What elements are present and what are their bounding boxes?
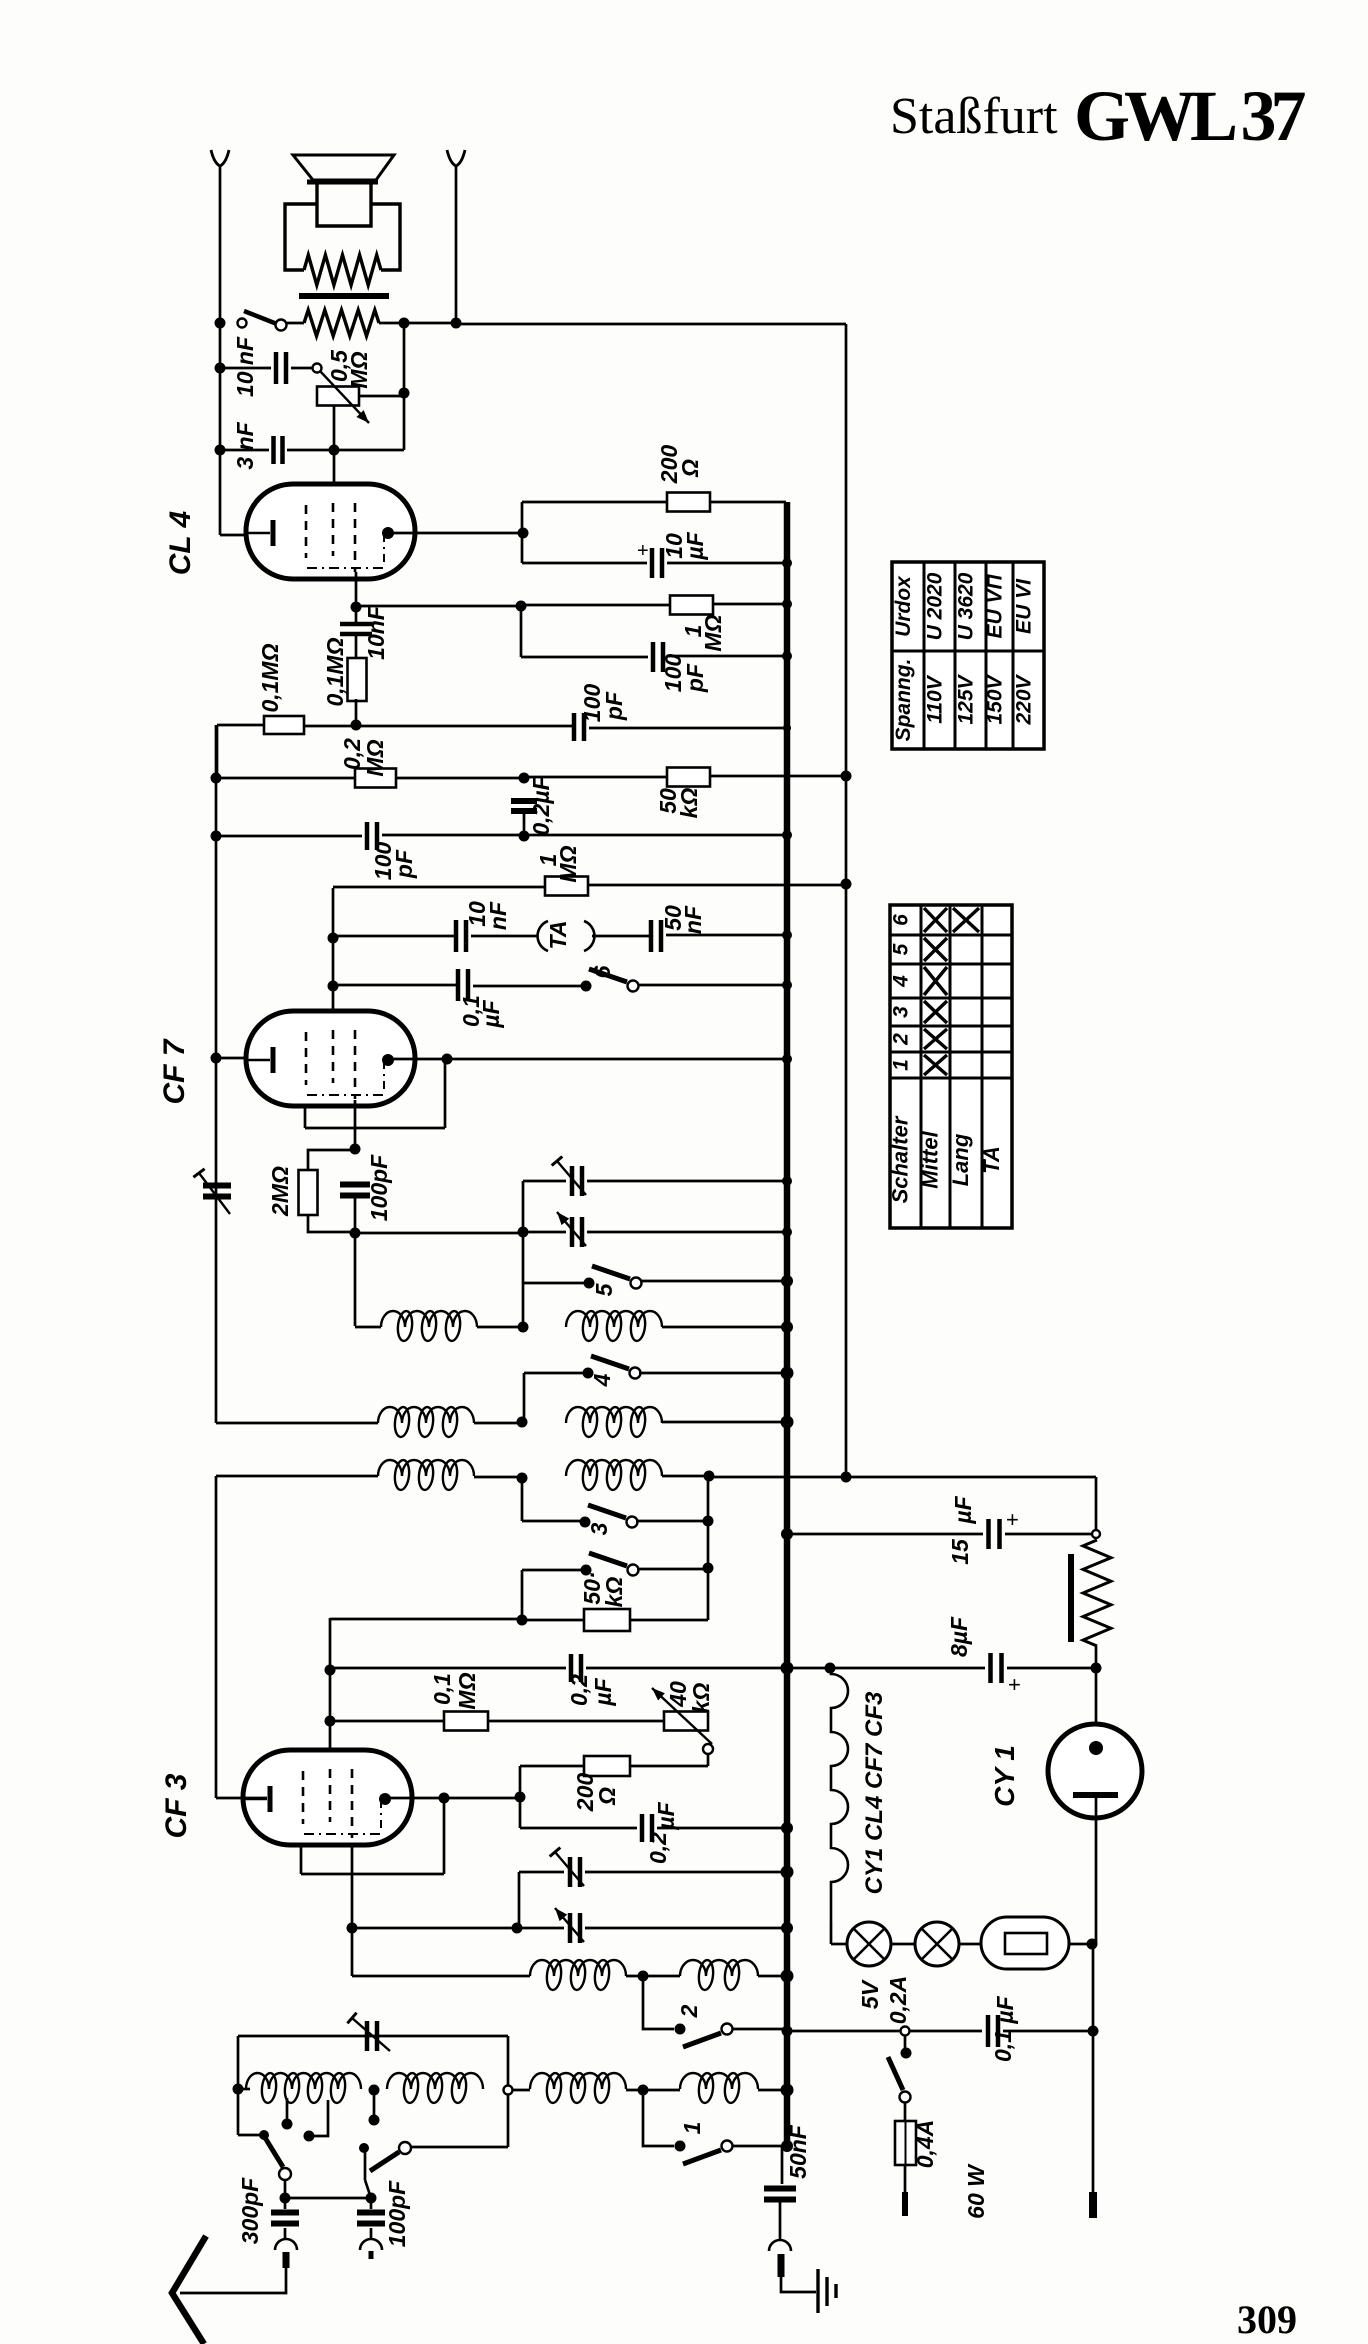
fuse (thermal) (981, 1917, 1069, 1969)
svg-text:Urdox: Urdox (892, 575, 915, 637)
wire (411, 2146, 508, 2149)
wire (707, 1476, 710, 1620)
terminal (speaker jack right) (447, 150, 465, 166)
wire (284, 2180, 287, 2198)
resistor 200 Ohm (667, 493, 710, 512)
wire (519, 1871, 564, 1874)
capacitor 0,2 uF (511, 801, 537, 811)
CY1 cathode bar (1073, 1792, 1118, 1798)
wire (779, 2200, 782, 2240)
junction (781, 2084, 794, 2097)
trimmer capacitor (570, 1913, 580, 1943)
svg-text:5V: 5V (857, 1979, 883, 2009)
wire (657, 1827, 786, 1830)
svg-text:0,1: 0,1 (990, 2030, 1016, 2062)
loudspeaker cone (293, 155, 394, 180)
wire (304, 1107, 307, 1128)
wire (215, 1476, 218, 1798)
wire (CF3 grid col) (329, 1618, 332, 1753)
coil (antenna) (246, 2073, 361, 2089)
wire (588, 884, 846, 887)
wire (CF7 anode) (388, 1058, 786, 1061)
svg-text:6: 6 (890, 914, 913, 926)
node (351, 720, 362, 731)
svg-text:MΩ: MΩ (362, 739, 388, 776)
junction (782, 830, 792, 840)
wire (180, 2268, 286, 2293)
wire (238, 2134, 262, 2137)
jack TA arcs (538, 921, 548, 951)
svg-text:Lang: Lang (948, 1133, 973, 1186)
svg-text:kΩ: kΩ (688, 1683, 714, 1714)
wire (488, 1720, 664, 1723)
heater chain winding (831, 1668, 848, 1922)
node (451, 318, 462, 329)
svg-text:10 nF: 10 nF (232, 336, 258, 397)
junction (782, 1227, 792, 1237)
svg-text:10nF: 10nF (363, 605, 389, 660)
capacitor 100 pF (340, 1185, 370, 1196)
loudspeaker driver (317, 184, 371, 226)
wire (216, 1797, 267, 1800)
capacitor 0,1 uF (988, 2015, 998, 2047)
trimmer capacitor (570, 1857, 580, 1887)
svg-text:CF 7: CF 7 (158, 1038, 191, 1104)
wire (403, 323, 406, 450)
capacitor 10 nF (276, 352, 286, 384)
node (519, 831, 530, 842)
junction (782, 558, 792, 568)
junction (782, 980, 792, 990)
svg-text:µF: µF (478, 999, 504, 1028)
wire (523, 1180, 566, 1183)
wire (524, 776, 667, 779)
node (783, 724, 791, 732)
node (328, 981, 339, 992)
jack arc (360, 2239, 382, 2250)
svg-text:MΩ: MΩ (700, 614, 726, 651)
wire (522, 1619, 584, 1622)
svg-text:309: 309 (1237, 2297, 1297, 2342)
wire (521, 502, 524, 563)
mains switch pivot (901, 2048, 912, 2059)
svg-text:0,2: 0,2 (645, 1832, 671, 1864)
svg-text:110V: 110V (924, 674, 947, 723)
wire (523, 811, 526, 836)
svg-text:TA: TA (545, 921, 571, 950)
wire (330, 1720, 444, 1723)
junction (782, 1176, 792, 1186)
coil (IF) (566, 1407, 662, 1423)
svg-text:pF: pF (391, 849, 417, 879)
transformer primary winding (field coil zigzag) (304, 255, 381, 285)
plug pin (778, 2254, 785, 2277)
wire (CL4 grid from 3nF node) (333, 450, 336, 505)
wire (626, 2089, 680, 2092)
wire (215, 725, 218, 1423)
node (703, 1563, 714, 1574)
contact (504, 2086, 513, 2095)
switch contact (238, 319, 247, 328)
wire (904, 2103, 907, 2121)
capacitor 100 pF (653, 642, 663, 672)
svg-text:CY1 CL4 CF7 CF3: CY1 CL4 CF7 CF3 (861, 1691, 888, 1894)
wire (334, 449, 404, 452)
wire (846, 1476, 1096, 1479)
wire (365, 2180, 371, 2198)
svg-text:U 3620: U 3620 (955, 572, 978, 640)
node (369, 2085, 380, 2096)
switch 4 (583, 1368, 594, 1379)
transformer core bar (299, 293, 389, 299)
wire (781, 2277, 816, 2292)
wire (477, 1326, 523, 1329)
wave switch contact (279, 2168, 291, 2180)
svg-text:µF: µF (950, 1495, 976, 1524)
coil (IF) (566, 1460, 662, 1476)
wire (330, 1618, 522, 1621)
coil (osc) (530, 1960, 626, 1976)
svg-text:0,2A: 0,2A (885, 1976, 911, 2025)
capacitor 50 nF (764, 2189, 796, 2200)
node (1088, 2026, 1099, 2037)
svg-text:0,1: 0,1 (429, 1673, 455, 1705)
wave switch contact (259, 2130, 269, 2140)
wire (382, 834, 786, 837)
junction (781, 1822, 793, 1834)
wire (379, 322, 404, 325)
wire (904, 2165, 907, 2192)
node (439, 1793, 450, 1804)
fuse 0,4 A (895, 2121, 916, 2165)
wire (352, 1975, 530, 1978)
wire (right column) (1095, 1477, 1098, 1530)
svg-text:+: + (1006, 1507, 1019, 1532)
junction (781, 1528, 793, 1540)
node (516, 601, 527, 612)
wire (219, 166, 222, 535)
node (1087, 1939, 1098, 1950)
wire (359, 395, 404, 398)
resistor (barretter) bar (1068, 1554, 1074, 1642)
wire (355, 634, 358, 658)
wire (787, 1533, 983, 1536)
wire (216, 1057, 270, 1060)
switch contact (276, 320, 287, 331)
svg-text:Ω: Ω (677, 459, 703, 478)
resistor 0,1 MOhm (444, 1712, 488, 1731)
capacitor 100 pF (370, 2198, 373, 2209)
wire (904, 2036, 907, 2048)
wire (287, 322, 304, 325)
wire (right feeder down) (845, 324, 848, 1477)
capacitor 3 nF (274, 436, 283, 464)
table switch grid (890, 905, 1012, 1228)
svg-text:0,4A: 0,4A (912, 2120, 938, 2169)
wire (589, 727, 787, 730)
wire (285, 2197, 371, 2200)
wire (220, 449, 269, 452)
CY1 anode dot (1089, 1741, 1103, 1755)
potentiometer 40 kOhm (664, 1712, 708, 1731)
capacitor 300 pF (284, 2198, 287, 2209)
switch 3 (580, 1517, 591, 1528)
wire (959, 1943, 981, 1946)
svg-text:300pF: 300pF (237, 2177, 263, 2244)
wire (787, 2030, 982, 2033)
node (233, 2084, 244, 2095)
node (280, 2193, 291, 2204)
wire (238, 2088, 250, 2091)
junction (782, 930, 792, 940)
dial lamp (915, 1922, 959, 1966)
svg-text:5: 5 (591, 1282, 617, 1296)
wire (box right) (507, 2036, 510, 2086)
switch 1 (675, 2141, 686, 2152)
trimmer capacitor (left) (210, 1186, 224, 1196)
wire (CL4 anode) (388, 532, 523, 535)
wire (grid column) (332, 888, 335, 1014)
wire (787, 1667, 985, 1670)
svg-text:µF: µF (992, 1995, 1018, 2024)
wire (666, 934, 786, 937)
svg-text:kΩ: kΩ (601, 1577, 627, 1608)
svg-text:0,1MΩ: 0,1MΩ (322, 637, 348, 706)
wire (1092, 2031, 1095, 2192)
wire (643, 1976, 674, 2029)
svg-text:TA: TA (979, 1146, 1004, 1174)
wire (522, 1569, 581, 1572)
junction (781, 1275, 793, 1287)
junction (781, 1922, 793, 1934)
node (215, 445, 226, 456)
wire (443, 1798, 446, 1874)
wire (630, 1619, 708, 1622)
svg-text:kΩ: kΩ (676, 788, 702, 819)
plug pin (283, 2252, 290, 2268)
node (211, 831, 222, 842)
node (399, 388, 410, 399)
wire (CF7 g down) (354, 1100, 357, 1149)
svg-text:0,2µF: 0,2µF (528, 775, 554, 835)
wire (355, 699, 358, 725)
capacitor 0,1 uF (458, 969, 468, 1001)
wave switch contact 2 (399, 2142, 411, 2154)
wire (713, 603, 786, 606)
wave switch lever 2 (370, 2152, 399, 2171)
capacitor 10 nF (grid) (340, 624, 372, 634)
svg-text:GWL 37: GWL 37 (1074, 76, 1305, 156)
node (703, 1516, 714, 1527)
node (515, 1792, 526, 1803)
svg-text:MΩ: MΩ (555, 845, 581, 882)
junction (781, 1970, 794, 1983)
switch 6 (581, 981, 592, 992)
switch lever (244, 311, 277, 324)
wire (474, 1422, 522, 1425)
capacitor 0,2 uF (642, 1814, 652, 1842)
wire (305, 1127, 445, 1130)
wire (710, 501, 786, 504)
wire (518, 1872, 521, 1928)
wire (291, 367, 312, 370)
wire (333, 886, 545, 889)
potentiometer wiper arrow (320, 371, 369, 423)
trimmer capacitor (572, 1166, 582, 1196)
node (841, 771, 852, 782)
junction (781, 2140, 793, 2152)
wire (CF3 osc grid down) (351, 1845, 354, 1976)
potentiometer 0,5 M&#937; (317, 387, 359, 406)
svg-text:pF: pF (682, 663, 708, 693)
tube CF3 (243, 1750, 412, 1845)
wire (662, 1475, 709, 1478)
wire (639, 1372, 786, 1375)
jack arc (275, 2239, 297, 2250)
svg-text:CY 1: CY 1 (989, 1745, 1020, 1807)
coil tap 1 (286, 2098, 289, 2124)
bus (HT rail) (784, 502, 791, 2146)
svg-text:nF: nF (485, 901, 511, 930)
wire (521, 604, 670, 607)
wire (396, 777, 524, 780)
resistor 1 MOhm (545, 877, 588, 896)
switch 2 (675, 2024, 686, 2035)
svg-text:MΩ: MΩ (346, 351, 372, 388)
wire (662, 1421, 786, 1424)
capacitor 0,2 uF (571, 1654, 581, 1682)
node (399, 318, 410, 329)
wire (308, 1150, 355, 1170)
node (328, 933, 339, 944)
coil (IF) (566, 1311, 662, 1327)
node (517, 1615, 528, 1626)
wire (758, 1975, 786, 1978)
wire (636, 1520, 708, 1523)
wire (517, 1927, 564, 1930)
switch 5 (584, 1278, 595, 1289)
wire (523, 1231, 566, 1234)
node (442, 1054, 453, 1065)
wire (1003, 2030, 1093, 2033)
node (638, 2085, 649, 2096)
junction (782, 2026, 793, 2037)
svg-text:2MΩ: 2MΩ (267, 1166, 293, 1217)
wire (667, 562, 786, 565)
svg-text:4: 4 (890, 975, 913, 988)
wire (CF3 anode) (385, 1797, 520, 1800)
svg-text:2: 2 (890, 1033, 913, 1046)
wire (643, 2090, 674, 2146)
node (366, 2193, 377, 2204)
svg-text:CL 4: CL 4 (164, 510, 197, 575)
junction (781, 1866, 794, 1879)
node (350, 1228, 361, 1239)
wire (626, 1975, 680, 1978)
wire (733, 2028, 786, 2031)
resistor 0,1 MOhm (264, 716, 304, 734)
wire (519, 1766, 522, 1828)
wire (521, 1478, 524, 1521)
wire (220, 367, 271, 370)
wire (216, 835, 362, 838)
resistor 50 kOhm (584, 1609, 630, 1631)
svg-text:8µF: 8µF (946, 1616, 972, 1657)
svg-text:Spanng.: Spanng. (892, 659, 915, 742)
svg-text:3: 3 (586, 1522, 612, 1535)
svg-text:0,1MΩ: 0,1MΩ (257, 643, 283, 712)
wire (521, 1570, 524, 1620)
wire (333, 935, 456, 938)
wire (668, 655, 786, 658)
wire (404, 322, 456, 325)
node (519, 773, 530, 784)
pot contact (703, 1744, 713, 1754)
wire (891, 1943, 915, 1946)
node (211, 773, 222, 784)
svg-text:µF: µF (590, 1677, 616, 1706)
wire (733, 2145, 782, 2148)
wire (639, 984, 786, 987)
wire (710, 775, 846, 778)
svg-text:U 2020: U 2020 (924, 572, 947, 640)
wire (586, 1667, 786, 1670)
wire (455, 166, 458, 323)
mains switch lever (888, 2057, 903, 2090)
capacitor 8 uF (991, 1653, 1002, 1683)
wire (220, 534, 270, 537)
coil (osc) (680, 1960, 758, 1976)
svg-text:220V: 220V (1013, 673, 1036, 725)
node (517, 1473, 528, 1484)
svg-text:EU VI: EU VI (1013, 578, 1036, 634)
wire (662, 1326, 786, 1329)
wire (anode loop down) (444, 1060, 447, 1128)
wire (522, 562, 647, 565)
dial lamp (847, 1922, 891, 1966)
wire (1092, 1944, 1095, 2031)
svg-text:100pF: 100pF (366, 1154, 392, 1221)
wire (1095, 1795, 1098, 1944)
capacitor 10 nF (456, 920, 466, 952)
node (825, 1663, 836, 1674)
node (517, 1417, 528, 1428)
junction (781, 1367, 794, 1380)
node (350, 1144, 361, 1155)
svg-text:50nF: 50nF (785, 2124, 811, 2179)
wire (304, 725, 572, 728)
trimmer capacitor (572, 1217, 582, 1247)
capacitor 50 nF (651, 920, 661, 952)
svg-text:MΩ: MΩ (454, 1672, 480, 1709)
node (325, 1716, 336, 1727)
wire (520, 606, 523, 657)
svg-text:2: 2 (676, 2004, 702, 2018)
wire (CL4 g3 down) (355, 572, 358, 607)
wire (355, 1326, 381, 1329)
wire (831, 1943, 847, 1946)
svg-text:nF: nF (680, 905, 706, 934)
node (518, 1322, 529, 1333)
svg-text:60 W: 60 W (963, 2163, 989, 2219)
wire (524, 1372, 583, 1375)
svg-text:+: + (637, 540, 649, 562)
svg-text:+: + (1008, 1672, 1021, 1697)
capacitor 15 uF (989, 1519, 1000, 1549)
wire (630, 1765, 708, 1768)
resistor 0,1 MOhm (vertical) (348, 658, 367, 701)
svg-text:5: 5 (890, 943, 913, 955)
